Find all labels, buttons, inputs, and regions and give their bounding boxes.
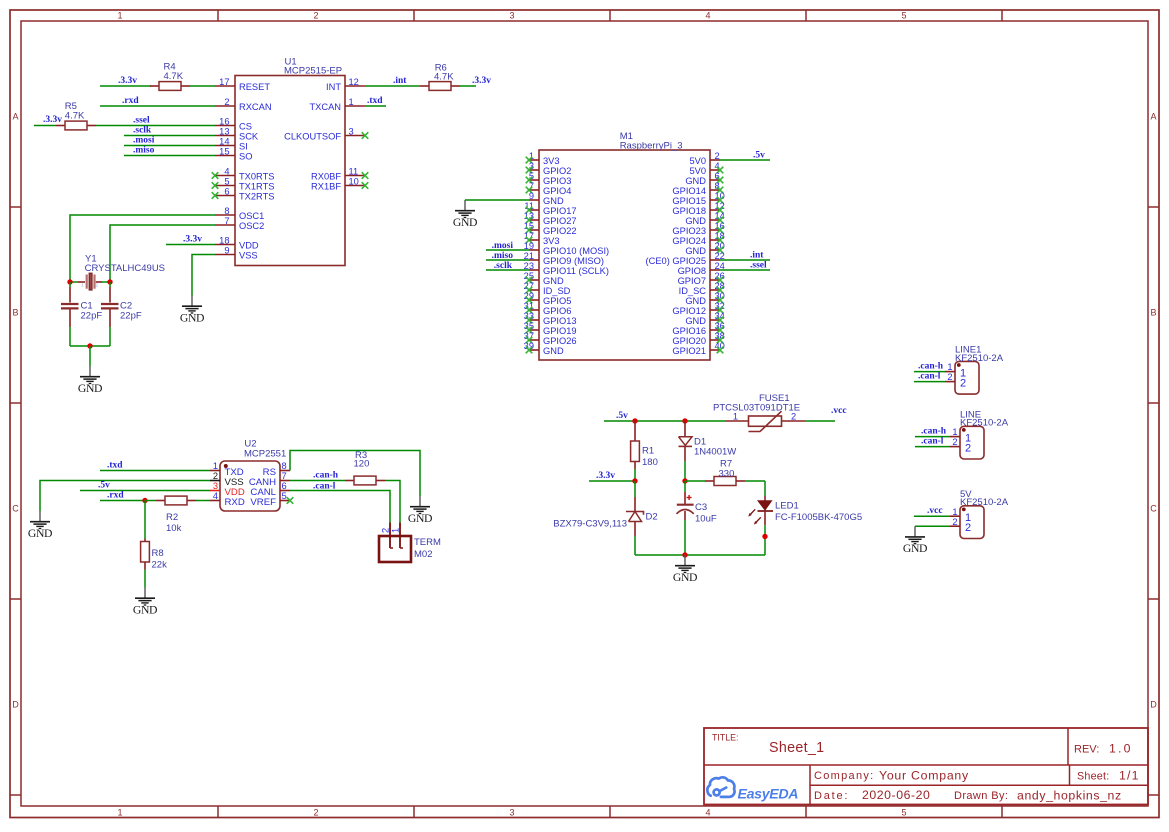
U1 no-connect TX0RTS [212, 172, 219, 179]
resistor R6 symbol [420, 82, 460, 91]
M1 pin 35 GPIO19 [524, 321, 577, 336]
wire ground to 5V pin2 [915, 525, 950, 527]
U1 pin 15 SO [215, 146, 252, 161]
svg-text:.can-h: .can-h [921, 427, 947, 437]
wire M1 GND pin9 to ground [465, 199, 529, 201]
svg-text:SO: SO [239, 152, 252, 162]
svg-text:8: 8 [224, 206, 229, 216]
svg-text:11: 11 [349, 166, 359, 176]
zener diode D2 [626, 481, 644, 555]
M1 no-connect pin 36 [717, 327, 724, 334]
svg-text:KF2510-2A: KF2510-2A [955, 353, 1004, 364]
wire .sclk to U1 SCK [124, 135, 215, 137]
U2 pin 8 RS [263, 461, 290, 478]
svg-text:D2: D2 [646, 511, 658, 522]
svg-text:.5v: .5v [753, 151, 765, 161]
wire R6 to .3.3v [460, 85, 476, 87]
svg-text:GPIO26: GPIO26 [543, 336, 577, 346]
resistor R8 vertical [141, 501, 150, 588]
svg-text:16: 16 [219, 116, 229, 126]
wire U2 CANL .can-l to TERM pin 2 [290, 491, 390, 523]
svg-text:TERM: TERM [414, 537, 441, 548]
M1 pin 15 GPIO22 [524, 221, 577, 236]
connector 5V KF2510-2A body [960, 506, 984, 539]
U2 pin 2 VSS [210, 471, 244, 488]
svg-text:1.0: 1.0 [1109, 742, 1133, 756]
wire U1 OSC1 to crystal [70, 215, 215, 280]
svg-text:18: 18 [219, 235, 229, 245]
ground at U1 VSS [180, 296, 204, 325]
svg-text:5: 5 [282, 491, 287, 501]
wire .5v to U2 VDD [80, 490, 210, 492]
M1 pin 2 5V0 [689, 151, 720, 166]
M1 pin 16 GPIO23 [672, 221, 724, 236]
border column ticks top [217, 10, 219, 21]
svg-text:17: 17 [219, 77, 229, 87]
svg-text:12: 12 [349, 77, 359, 87]
M1 pin 33 GPIO13 [524, 311, 577, 326]
M1 pin 31 GPIO6 [524, 301, 572, 316]
U1 pin 4 TX0RTS [215, 166, 274, 181]
svg-text:10: 10 [349, 176, 359, 186]
wire .mosi to U1 SI [124, 145, 215, 147]
svg-text:GND: GND [453, 216, 477, 229]
svg-text:VSS: VSS [239, 251, 258, 261]
svg-text:TX0RTS: TX0RTS [239, 172, 274, 182]
svg-text:2: 2 [313, 807, 318, 817]
M1 no-connect pin 13 [526, 217, 533, 224]
svg-text:GND: GND [543, 276, 564, 286]
junction LED1 lead [762, 534, 767, 539]
M1 pin 8 GPIO14 [672, 181, 720, 196]
wire .txd to U2 TXD [100, 470, 210, 472]
svg-text:RESET: RESET [239, 82, 270, 92]
svg-text:A: A [1150, 112, 1156, 122]
M1 pin 21 GPIO9 (MISO) [524, 251, 604, 266]
svg-text:.can-l: .can-l [918, 372, 941, 382]
M1 no-connect pin 8 [717, 187, 724, 194]
svg-text:2020-06-20: 2020-06-20 [862, 788, 930, 802]
wire .rxd to U1 RXCAN [100, 105, 215, 107]
svg-text:RXD: RXD [225, 497, 245, 508]
svg-text:CS: CS [239, 122, 252, 132]
svg-text:1: 1 [952, 427, 957, 437]
LINE pin 2 [950, 437, 971, 454]
resistor R7 [685, 477, 765, 486]
svg-text:GPIO10 (MOSI): GPIO10 (MOSI) [543, 246, 609, 256]
svg-text:Sheet:: Sheet: [1077, 771, 1109, 783]
M1 no-connect pin 4 [717, 167, 724, 174]
svg-text:EasyEDA: EasyEDA [738, 786, 799, 802]
svg-text:C: C [1150, 504, 1157, 514]
svg-text:GPIO20: GPIO20 [672, 336, 706, 346]
svg-text:4.7K: 4.7K [434, 72, 454, 83]
M1 no-connect pin 30 [717, 297, 724, 304]
svg-text:4.7K: 4.7K [164, 71, 184, 82]
wire ground to U2 VSS [40, 481, 210, 512]
M1 pin 5 GPIO3 [529, 171, 572, 186]
junction 5v D1 [682, 418, 687, 423]
svg-text:C3: C3 [695, 502, 707, 513]
wire R5 to U1 CS .ssel [96, 125, 215, 127]
svg-text:.sclk: .sclk [494, 261, 513, 271]
junction crystal left [67, 279, 72, 284]
svg-text:LED1: LED1 [775, 501, 799, 512]
svg-text:9: 9 [224, 245, 229, 255]
IC M1 RaspberryPi_3 body [539, 150, 710, 360]
title block Date row [814, 788, 1122, 803]
capacitor C3 polarized [677, 481, 694, 555]
svg-text:.3.3v: .3.3v [118, 76, 137, 86]
svg-text:B: B [1150, 308, 1156, 318]
connector LINE KF2510-2A body [960, 426, 984, 459]
svg-text:GPIO11 (SCLK): GPIO11 (SCLK) [543, 266, 609, 276]
ground at M1 pin 9 [453, 200, 477, 229]
svg-text:GPIO24: GPIO24 [672, 236, 706, 246]
svg-text:GPIO14: GPIO14 [672, 186, 706, 196]
svg-text:GND: GND [685, 216, 706, 226]
svg-text:GPIO12: GPIO12 [672, 306, 706, 316]
junction 3.3v R1 D2 [632, 478, 637, 483]
U1 pin 5 TX1RTS [215, 176, 274, 191]
svg-text:.txd: .txd [367, 96, 383, 106]
svg-text:RX0BF: RX0BF [311, 172, 341, 182]
svg-text:GPIO5: GPIO5 [543, 296, 571, 306]
svg-text:ID_SC: ID_SC [679, 286, 707, 296]
svg-text:GPIO15: GPIO15 [672, 196, 706, 206]
wire .vcc to 5V pin1 [914, 515, 950, 517]
svg-text:GPIO18: GPIO18 [672, 206, 706, 216]
svg-text:4: 4 [213, 491, 218, 501]
wire .5v rail to FUSE1 [604, 420, 725, 422]
title block Company row [814, 769, 969, 783]
5V pin1 marker dot [962, 508, 966, 512]
M1 pin 13 GPIO27 [524, 211, 577, 226]
M1 pin 3 GPIO2 [529, 161, 572, 176]
svg-text:7: 7 [224, 216, 229, 226]
U2 pin 6 CANL [250, 481, 290, 498]
M1 pin 10 GPIO15 [672, 191, 724, 206]
LINE1 pin 2 [945, 372, 966, 389]
svg-text:1: 1 [349, 97, 354, 107]
wire .miso to M1 GPIO9 [486, 259, 529, 261]
svg-text:KF2510-2A: KF2510-2A [960, 418, 1009, 429]
svg-text:SCK: SCK [239, 132, 259, 142]
M1 no-connect pin 39 [526, 347, 533, 354]
svg-text:GPIO4: GPIO4 [543, 186, 571, 196]
svg-text:.5v: .5v [616, 411, 628, 421]
svg-text:GPIO6: GPIO6 [543, 306, 571, 316]
svg-text:4.7K: 4.7K [65, 111, 85, 122]
svg-text:TX2RTS: TX2RTS [239, 192, 274, 202]
svg-text:4: 4 [705, 11, 710, 21]
M1 no-connect pin 10 [717, 197, 724, 204]
wire U1 VSS to ground [192, 255, 215, 296]
M1 pin 18 GPIO24 [672, 231, 724, 246]
svg-text:D: D [12, 700, 19, 710]
junction rxd R2 R8 [142, 498, 147, 503]
svg-text:TITLE:: TITLE: [712, 733, 738, 743]
M1 pin 28 ID_SC [679, 281, 725, 296]
svg-text:.int: .int [750, 251, 764, 261]
svg-text:VDD: VDD [239, 241, 259, 251]
wire .can-l to LINE1 pin2 [914, 381, 945, 383]
svg-text:1: 1 [117, 11, 122, 21]
svg-text:R1: R1 [642, 445, 654, 456]
svg-text:.can-h: .can-h [313, 471, 339, 481]
svg-text:GPIO13: GPIO13 [543, 316, 577, 326]
svg-text:GND: GND [133, 604, 157, 617]
capacitor C1 [61, 282, 79, 346]
svg-text:RaspberryPi_3: RaspberryPi_3 [620, 140, 683, 151]
connector LINE1 KF2510-2A body [955, 361, 979, 394]
M1 pin 6 GND [685, 171, 720, 186]
svg-text:Drawn By:: Drawn By: [954, 790, 1008, 802]
svg-text:2: 2 [381, 528, 391, 533]
M1 pin 17 3V3 [524, 231, 560, 246]
svg-text:1: 1 [947, 362, 952, 372]
U1 pin 17 RESET [215, 77, 270, 92]
IC U2 MCP2551 body [220, 461, 280, 511]
M1 pin 19 GPIO10 (MOSI) [524, 241, 609, 256]
svg-text:A: A [12, 112, 18, 122]
svg-text:2: 2 [313, 11, 318, 21]
svg-text:10k: 10k [166, 523, 182, 534]
U1 pin 16 CS [215, 116, 252, 131]
svg-text:10uF: 10uF [695, 513, 717, 524]
svg-text:C: C [12, 504, 19, 514]
resistor R1 vertical [631, 421, 640, 481]
resistor R4 symbol [150, 82, 190, 91]
svg-text:R8: R8 [152, 548, 164, 559]
svg-text:PTCSL03T091DT1E: PTCSL03T091DT1E [713, 403, 800, 414]
IC U1 MCP2515-EP body [235, 76, 345, 266]
wire U1 TXCAN .txd [365, 105, 386, 107]
U1 no-connect RX1BF [362, 182, 369, 189]
svg-text:TXCAN: TXCAN [309, 102, 341, 112]
connector TERM M02 [379, 523, 411, 563]
junction ground rail [682, 552, 687, 557]
svg-text:GPIO2: GPIO2 [543, 166, 571, 176]
svg-text:SI: SI [239, 142, 248, 152]
svg-text:GND: GND [685, 316, 706, 326]
svg-text:RX1BF: RX1BF [311, 182, 341, 192]
resistor R5 symbol [56, 121, 96, 130]
svg-text:GPIO22: GPIO22 [543, 226, 577, 236]
LED LED1 [748, 481, 773, 555]
svg-text:.miso: .miso [133, 146, 155, 156]
capacitor C2 [101, 282, 119, 346]
svg-text:2: 2 [965, 522, 971, 534]
svg-text:Company:: Company: [814, 770, 875, 782]
resistor R2 symbol [156, 496, 196, 505]
M1 pin 39 GND [524, 341, 564, 356]
M1 pin 1 3V3 [529, 151, 560, 166]
svg-text:5: 5 [901, 11, 906, 21]
LINE pin1 marker dot [962, 428, 966, 432]
svg-text:.mosi: .mosi [133, 136, 155, 146]
M1 pin 23 GPIO11 (SCLK) [524, 261, 609, 276]
junction D1 C3 R7 [682, 478, 687, 483]
svg-text:1: 1 [213, 461, 218, 471]
svg-text:BZX79-C3V9,113: BZX79-C3V9,113 [553, 519, 627, 530]
M1 pin 12 GPIO18 [672, 201, 724, 216]
svg-text:5: 5 [224, 176, 229, 186]
svg-text:3: 3 [213, 481, 218, 491]
svg-text:RXCAN: RXCAN [239, 102, 272, 112]
svg-text:2: 2 [952, 517, 957, 527]
wire .can-l to LINE pin2 [915, 446, 950, 448]
U1 no-connect TX1RTS [212, 182, 219, 189]
svg-text:MCP2551: MCP2551 [244, 449, 286, 460]
svg-text:3V3: 3V3 [543, 156, 560, 166]
title block REV 1.0 [1074, 742, 1133, 756]
svg-text:GPIO8: GPIO8 [678, 266, 706, 276]
svg-text:GND: GND [903, 542, 927, 555]
U2 pin 3 VDD [210, 481, 245, 498]
M1 no-connect pin 3 [526, 167, 533, 174]
wire .mosi to M1 GPIO10 [486, 249, 529, 251]
svg-text:GPIO21: GPIO21 [672, 346, 706, 356]
svg-text:GND: GND [78, 382, 102, 395]
svg-text:1: 1 [391, 528, 401, 533]
M1 no-connect pin 33 [526, 317, 533, 324]
svg-text:120: 120 [354, 459, 370, 470]
svg-text:7: 7 [282, 471, 287, 481]
wire junction to R2 [145, 500, 156, 502]
svg-text:180: 180 [642, 457, 658, 468]
wire U1 OSC2 to crystal [110, 225, 215, 280]
wire U2 CANH .can-h to R3 [290, 480, 345, 482]
svg-text:14: 14 [219, 136, 229, 146]
M1 no-connect pin 38 [717, 337, 724, 344]
svg-text:22k: 22k [152, 560, 168, 571]
wire U2 RS to ground [290, 451, 420, 497]
M1 no-connect pin 40 [717, 347, 724, 354]
U1 no-connect RX0BF [362, 172, 369, 179]
svg-text:.ssel: .ssel [133, 116, 150, 126]
svg-text:Date:: Date: [814, 790, 849, 802]
M1 no-connect pin 34 [717, 317, 724, 324]
svg-text:GND: GND [28, 527, 52, 540]
wire FUSE1 to .vcc [805, 420, 835, 422]
svg-text:330: 330 [719, 468, 735, 479]
M1 no-connect pin 28 [717, 287, 724, 294]
M1 no-connect pin 5 [526, 177, 533, 184]
M1 pin 11 GPIO17 [524, 201, 576, 216]
wire U1 INT to R6 [365, 85, 420, 87]
wire .3.3v to U1 VDD [166, 244, 215, 246]
M1 no-connect pin 11 [526, 207, 533, 214]
svg-text:B: B [12, 308, 18, 318]
M1 pin 30 GND [685, 291, 725, 306]
M1 no-connect pin 27 [526, 287, 533, 294]
svg-text:TX1RTS: TX1RTS [239, 182, 274, 192]
svg-text:KF2510-2A: KF2510-2A [960, 497, 1009, 508]
svg-text:GND: GND [408, 512, 432, 525]
fuse FUSE1 PTCSL03T091DT1E [725, 411, 805, 431]
svg-text:GPIO7: GPIO7 [678, 276, 706, 286]
wire .can-h to LINE pin1 [915, 436, 950, 438]
svg-text:CRYSTALHC49US: CRYSTALHC49US [85, 263, 165, 274]
wire R3 to TERM pin 1 [385, 481, 400, 523]
M1 pin 22 (CE0) GPIO25 [646, 251, 725, 266]
M1 no-connect pin 37 [526, 337, 533, 344]
svg-text:VREF: VREF [250, 497, 276, 508]
svg-text:1: 1 [952, 507, 957, 517]
M1 pin 32 GPIO12 [672, 301, 724, 316]
svg-text:2: 2 [224, 97, 229, 107]
U1 pin 9 VSS [215, 245, 258, 260]
svg-text:(CE0) GPIO25: (CE0) GPIO25 [646, 256, 706, 266]
svg-text:GPIO27: GPIO27 [543, 216, 577, 226]
U1 pin 18 VDD [215, 235, 259, 250]
wire .3.3v to R5 [34, 125, 56, 127]
svg-text:GPIO16: GPIO16 [672, 326, 706, 336]
wire crystal caps ground rail [70, 345, 110, 347]
svg-text:.can-l: .can-l [921, 437, 944, 447]
svg-text:FC-F1005BK-470G5: FC-F1005BK-470G5 [775, 512, 862, 523]
svg-text:.3.3v: .3.3v [183, 235, 202, 245]
M1 pin 38 GPIO20 [672, 331, 724, 346]
M1 pin 20 GND [685, 241, 725, 256]
svg-text:3: 3 [349, 126, 354, 136]
M1 no-connect pin 25 [526, 277, 533, 284]
M1 pin 14 GND [685, 211, 725, 226]
svg-text:2: 2 [952, 437, 957, 447]
wire R4 to U1 RESET [190, 85, 215, 87]
svg-text:2: 2 [960, 377, 966, 389]
M1 no-connect pin 12 [717, 207, 724, 214]
ground below crystal [78, 366, 102, 395]
U1 pin 10 RX1BF [311, 176, 365, 191]
svg-text:22pF: 22pF [120, 311, 142, 322]
U1 pin 1 TXCAN [309, 97, 365, 112]
svg-text:MCP2515-EP: MCP2515-EP [284, 66, 342, 77]
wire .rxd to R2 junction [100, 500, 145, 502]
M1 pin 34 GND [685, 311, 725, 326]
U1 pin 3 CLKOUTSOF [284, 126, 365, 141]
M1 no-connect pin 35 [526, 327, 533, 334]
svg-text:2: 2 [947, 372, 952, 382]
svg-text:M02: M02 [414, 549, 432, 560]
svg-text:13: 13 [219, 126, 229, 136]
svg-text:GND: GND [543, 196, 564, 206]
svg-text:.3.3v: .3.3v [472, 76, 491, 86]
U1 no-connect TX2RTS [212, 192, 219, 199]
svg-text:.miso: .miso [492, 251, 514, 261]
wire junction to ground [89, 346, 91, 366]
wire .3.3v to R4 [100, 85, 151, 87]
svg-text:1N4001W: 1N4001W [694, 447, 736, 458]
svg-text:5: 5 [901, 807, 906, 817]
svg-text:.vcc: .vcc [927, 506, 943, 516]
border row ticks left [10, 206, 21, 208]
M1 no-connect pin 6 [717, 177, 724, 184]
M1 pin 4 5V0 [689, 161, 720, 176]
svg-text:1: 1 [117, 807, 122, 817]
svg-text:2: 2 [213, 471, 218, 481]
U2 no-connect VREF [287, 497, 294, 504]
M1 no-connect pin 14 [717, 217, 724, 224]
svg-text:.5v: .5v [98, 480, 110, 490]
svg-text:Your Company: Your Company [879, 769, 969, 783]
svg-text:5V0: 5V0 [689, 156, 706, 166]
svg-text:.int: .int [393, 76, 407, 86]
wire .miso to U1 SO [124, 155, 215, 157]
ground power section [673, 555, 697, 584]
svg-text:.can-h: .can-h [918, 362, 944, 372]
